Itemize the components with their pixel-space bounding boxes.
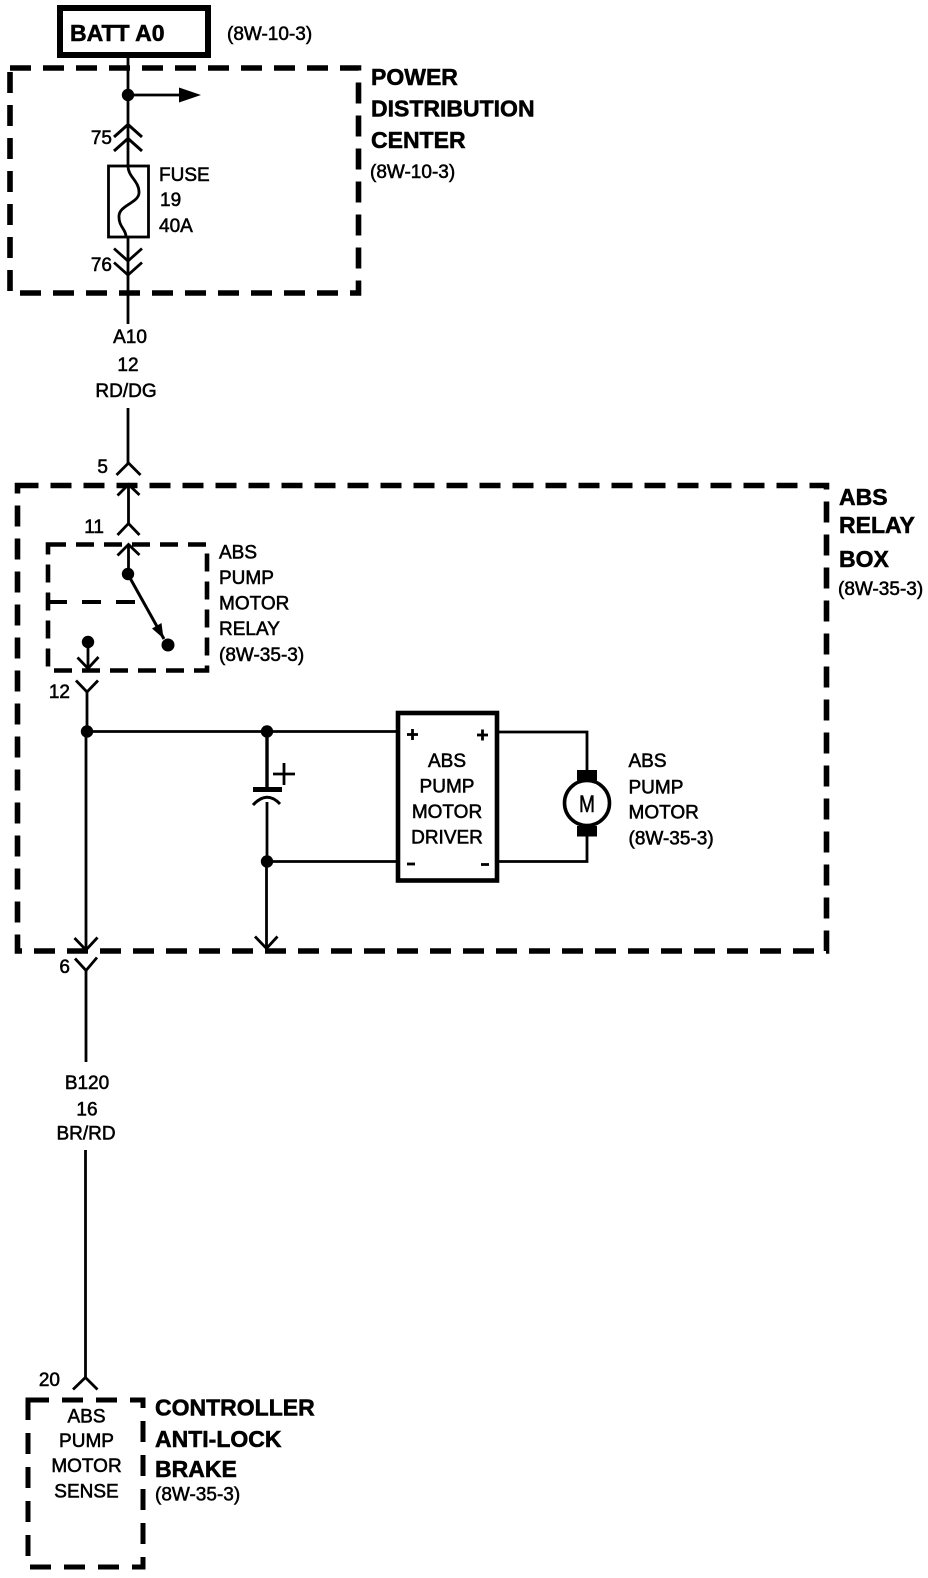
terminal arrow pin 5 inside box [118,485,140,524]
junction capacitor top [261,725,273,737]
driver + terminal right [477,730,488,741]
arrow feed to other circuits [128,88,201,103]
relay moving contact dot [162,639,175,652]
svg-text:PUMP: PUMP [629,778,684,799]
junction node left bus [81,725,93,737]
svg-text:75: 75 [91,128,112,149]
svg-text:19: 19 [160,190,181,211]
battery feed box BATT A0 [60,8,208,55]
svg-text:RELAY: RELAY [219,619,280,640]
ABS PUMP MOTOR SENSE label [51,1407,121,1503]
motor M1 [565,781,610,826]
connector 12 [76,681,98,732]
motor brush bottom [577,826,597,837]
svg-text:PUMP: PUMP [219,568,274,589]
svg-text:RD/DG: RD/DG [95,381,156,402]
wire fuse to label A10 [127,237,130,324]
svg-text:BRAKE: BRAKE [155,1456,237,1482]
svg-text:(8W-35-3): (8W-35-3) [629,829,714,850]
ABS relay box [18,486,827,952]
svg-text:ABS: ABS [629,751,667,772]
connector 76 chevrons [114,249,142,276]
svg-text:FUSE: FUSE [159,165,210,186]
svg-text:ANTI-LOCK: ANTI-LOCK [155,1426,282,1452]
connector 11 [118,524,140,536]
svg-text:12: 12 [117,355,138,376]
svg-text:BOX: BOX [839,546,890,572]
power distribution center box [10,68,359,293]
svg-text:(8W-35-3): (8W-35-3) [219,645,304,666]
junction capacitor bottom [261,855,273,867]
relay contact arrow to pin 12 [78,646,99,669]
svg-text:MOTOR: MOTOR [412,802,482,823]
fuse 19 40A [109,166,149,237]
svg-text:B120: B120 [65,1073,109,1094]
svg-text:BR/RD: BR/RD [56,1124,115,1145]
wire driver to motor top [497,732,587,770]
ABS PUMP MOTOR label [629,751,714,850]
wire to connector 5 [127,408,130,464]
svg-text:DRIVER: DRIVER [411,828,483,849]
relay switch arm [130,578,164,639]
svg-text:(8W-10-3): (8W-10-3) [227,24,312,45]
svg-text:ABS: ABS [839,484,888,510]
svg-text:DISTRIBUTION: DISTRIBUTION [371,96,535,122]
wire battery to fuse [127,55,130,166]
svg-text:PUMP: PUMP [420,777,475,798]
terminal arrow pin 11 into relay [118,545,140,575]
svg-text:(8W-10-3): (8W-10-3) [370,162,455,183]
svg-text:ABS: ABS [428,751,466,772]
junction dot A [122,89,134,101]
svg-text:M: M [579,791,595,818]
svg-text:40A: 40A [159,216,193,237]
svg-text:(8W-35-3): (8W-35-3) [155,1485,240,1506]
svg-text:76: 76 [91,255,112,276]
ABS pump motor relay box [48,545,207,671]
connector 20 [73,1378,98,1390]
left wire down to box edge arrow [75,732,98,951]
svg-text:6: 6 [59,957,70,978]
svg-text:MOTOR: MOTOR [629,803,699,824]
wire to controller [84,1150,87,1378]
ABS RELAY BOX label [838,484,923,600]
ABS pump motor driver box U1 [398,713,497,881]
wire motor to driver bottom [497,836,587,862]
POWER DISTRIBUTION CENTER label [370,64,535,183]
svg-text:16: 16 [76,1100,97,1121]
svg-text:MOTOR: MOTOR [51,1456,121,1477]
svg-text:BATT A0: BATT A0 [70,20,165,46]
svg-text:20: 20 [39,1370,60,1391]
CONTROLLER ANTI-LOCK BRAKE label [155,1395,315,1506]
svg-text:POWER: POWER [371,64,458,90]
svg-text:ABS: ABS [219,543,257,564]
connector 6 [75,958,97,1063]
ABS pump motor relay label [219,543,304,667]
driver + terminal left [407,729,418,740]
svg-text:12: 12 [49,682,70,703]
relay common contact dot [122,568,134,580]
wire label B120 16 BR/RD [56,1073,115,1145]
svg-text:RELAY: RELAY [839,512,915,538]
connector 75 chevrons [114,125,142,152]
svg-text:CONTROLLER: CONTROLLER [155,1395,315,1421]
wire bus bottom [267,860,398,863]
motor brush top [577,770,597,781]
svg-text:CENTER: CENTER [371,127,466,153]
connector 5 [117,463,141,475]
svg-text:(8W-35-3): (8W-35-3) [838,579,923,600]
wire bus top [87,730,398,733]
svg-text:ABS: ABS [67,1407,105,1428]
svg-text:11: 11 [84,517,104,538]
svg-text:5: 5 [97,457,108,478]
ground arrow to box edge [255,862,278,949]
fuse label [159,165,210,237]
driver label [411,751,483,849]
svg-text:MOTOR: MOTOR [219,594,289,615]
driver - terminal right [481,863,489,866]
svg-text:SENSE: SENSE [54,1482,118,1503]
controller box ABS pump motor sense [28,1400,143,1567]
svg-text:A10: A10 [113,327,147,348]
wire label A10 12 RD/DG [95,327,156,402]
capacitor C1 [253,732,295,862]
relay internal dashed line [48,600,146,604]
svg-text:PUMP: PUMP [59,1431,114,1452]
driver - terminal left [407,863,415,866]
relay NO contact dot [82,636,94,648]
